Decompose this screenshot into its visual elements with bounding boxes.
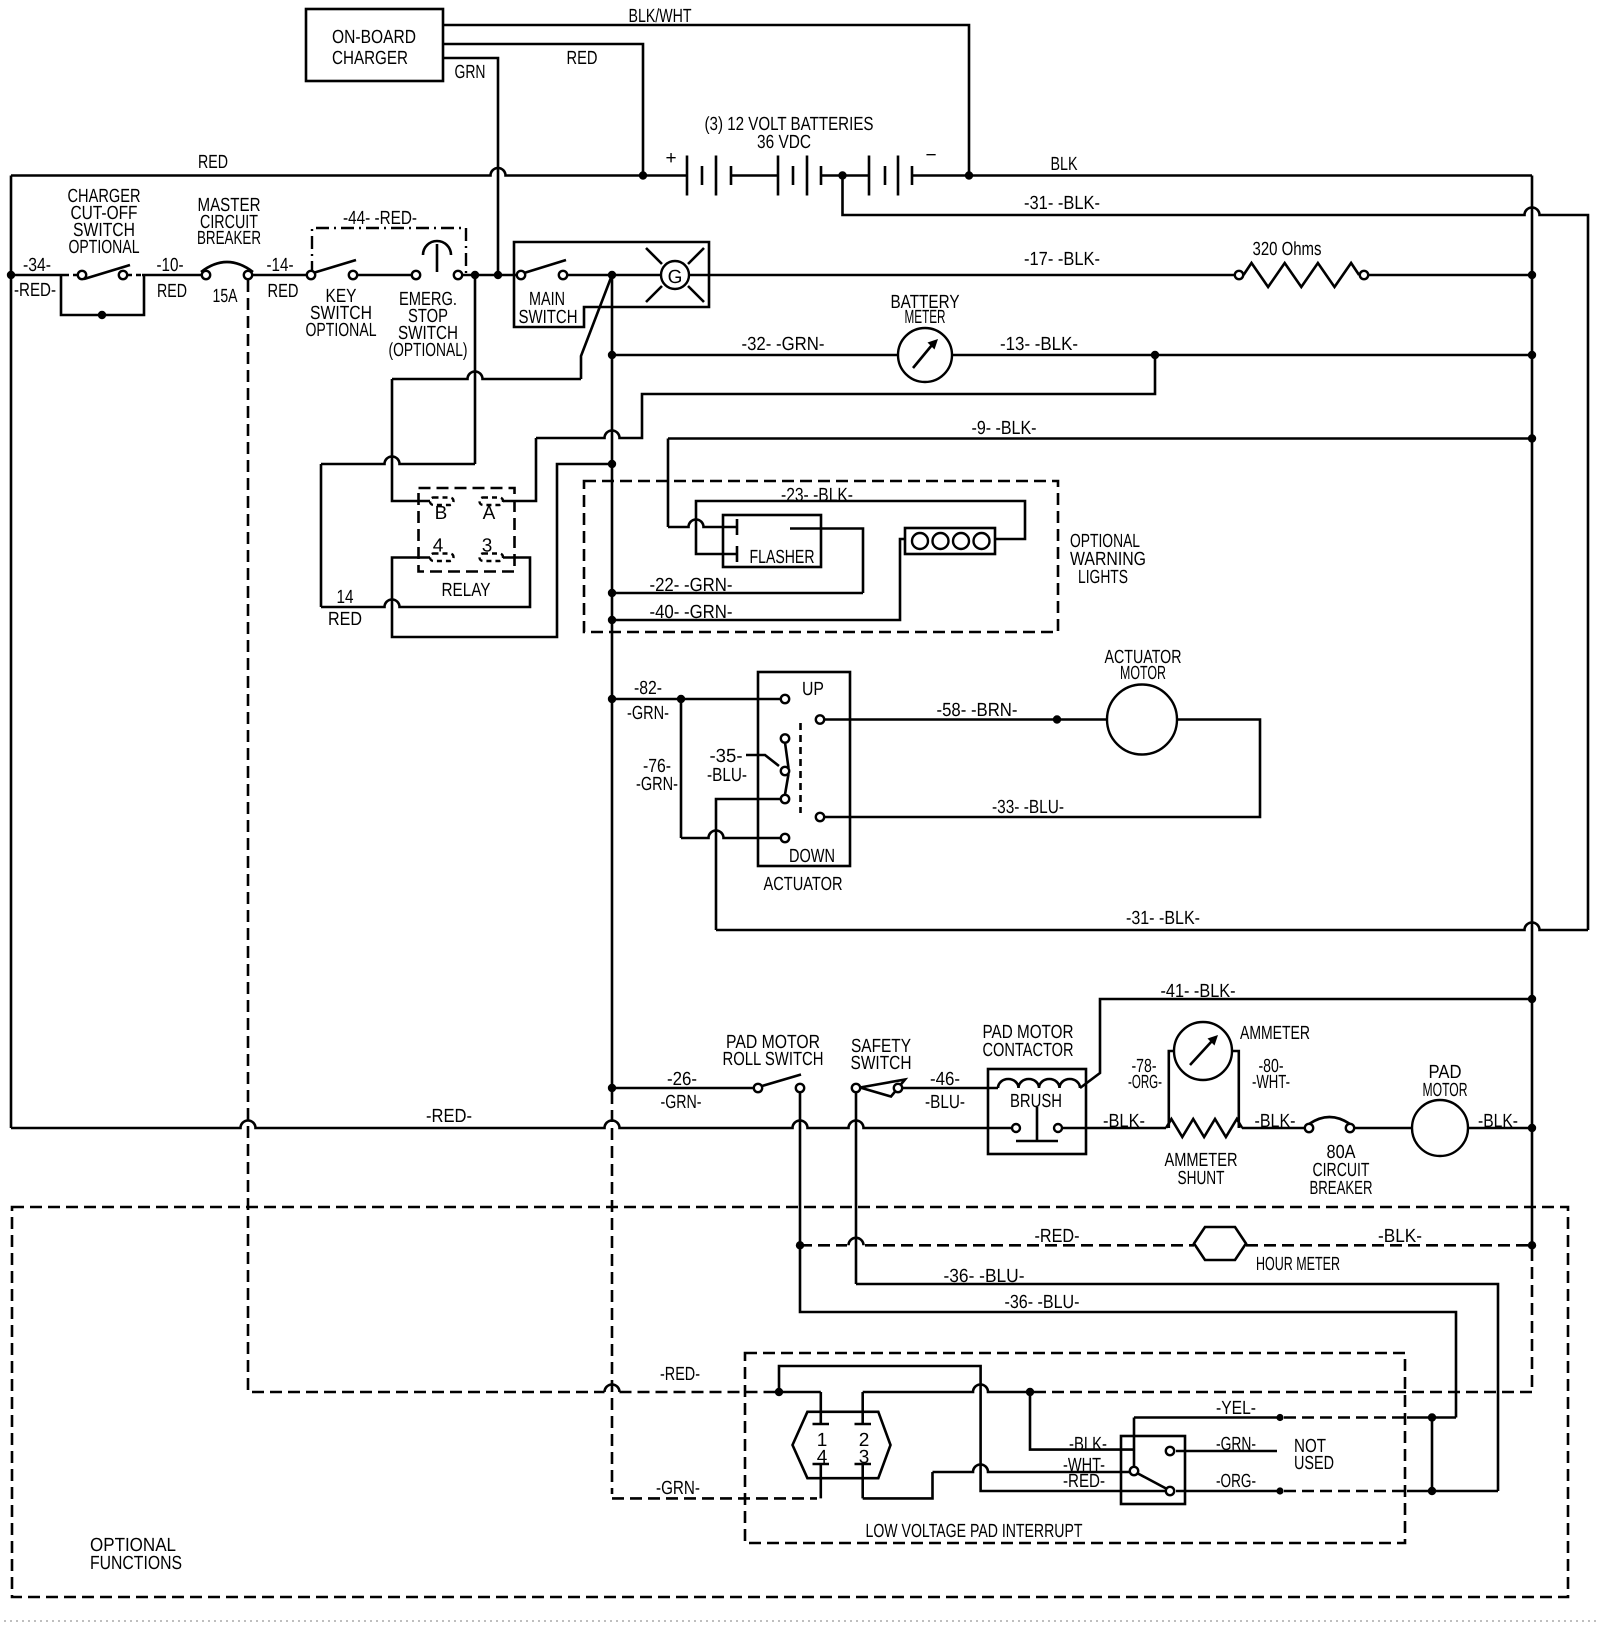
svg-text:BLK: BLK	[1051, 154, 1078, 175]
label -14- RED	[267, 255, 299, 302]
battery B1 plates	[687, 156, 716, 196]
junction dot 17 BLK right rail	[1528, 271, 1536, 279]
junction dot ORG jumper	[1428, 1487, 1436, 1495]
connector pin 3	[855, 1464, 872, 1498]
junction dot hour meter RED tap	[796, 1241, 804, 1249]
actuator 35 BLU pointer	[746, 755, 779, 766]
label charger cut-off switch optional	[68, 186, 141, 258]
svg-text:-BLU-: -BLU-	[925, 1092, 965, 1113]
wire 46 BLU safety switch to contactor coil	[898, 1087, 998, 1090]
flasher input contact bars	[736, 519, 739, 562]
ammeter needle	[1190, 1041, 1212, 1065]
wire YEL-ORG jumper link	[1431, 1418, 1434, 1492]
wire 31 BLK actuator return to right rail	[716, 799, 1588, 930]
svg-text:-31- -BLK-: -31- -BLK-	[1024, 193, 1100, 214]
svg-text:-ORG-: -ORG-	[1128, 1072, 1162, 1093]
wire cut-off switch bypass	[61, 275, 144, 315]
relay contact pad A	[480, 498, 504, 506]
G charge lamp rays	[646, 248, 704, 302]
key switch contacts	[307, 271, 315, 279]
warning lights bar	[905, 528, 995, 554]
wire right rail battery negative	[1531, 176, 1532, 1246]
svg-text:UP: UP	[802, 679, 824, 700]
label main switch	[519, 289, 578, 328]
label master circuit breaker	[197, 195, 261, 249]
junction dot YEL jumper	[1428, 1413, 1436, 1421]
wire 23 BLK flasher to warning lights	[696, 501, 1025, 554]
wire dashed YEL from interrupt switch	[1284, 1416, 1407, 1419]
svg-text:METER: METER	[905, 307, 946, 328]
wire bottom RED rail	[11, 1121, 1016, 1128]
svg-text:A: A	[483, 503, 496, 524]
svg-text:-BLK-: -BLK-	[1478, 1111, 1518, 1132]
wire dashed BLK hour meter to right rail	[1246, 1244, 1528, 1247]
wire 58 BRN actuator to motor	[820, 718, 1107, 721]
svg-text:-RED-: -RED-	[14, 280, 56, 301]
pad motor contactor box	[988, 1069, 1086, 1154]
svg-text:-17- -BLK-: -17- -BLK-	[1024, 249, 1100, 270]
svg-text:-14-: -14-	[267, 255, 294, 276]
80A circuit breaker arc	[1309, 1117, 1350, 1124]
actuator blades	[785, 743, 789, 795]
main switch contacts	[517, 271, 525, 279]
wire dashed BLK pad interrupt to right rail	[1034, 1249, 1532, 1392]
charger cut-off switch blade	[84, 265, 130, 279]
svg-text:CHARGER: CHARGER	[332, 48, 408, 69]
junction dot 58 BRN splice	[1053, 715, 1061, 723]
svg-text:-58- -BRN-: -58- -BRN-	[937, 700, 1018, 721]
svg-text:SWITCH: SWITCH	[519, 307, 578, 328]
junction dot 40 GRN	[608, 616, 616, 624]
master circuit breaker contacts	[202, 271, 210, 279]
wire relay pin 4 net to GRN vertical	[392, 464, 612, 637]
emergency stop switch mushroom head	[423, 241, 451, 272]
svg-text:-9- -BLK-: -9- -BLK-	[972, 418, 1037, 439]
svg-text:-13- -BLK-: -13- -BLK-	[1000, 334, 1078, 355]
svg-text:RELAY: RELAY	[442, 580, 491, 601]
svg-text:15A: 15A	[213, 286, 238, 307]
svg-text:(OPTIONAL): (OPTIONAL)	[389, 340, 468, 361]
wire shunt to 80A breaker	[1242, 1127, 1309, 1130]
pad motor roll switch contacts	[754, 1084, 762, 1092]
svg-text:36 VDC: 36 VDC	[757, 132, 811, 153]
svg-text:+: +	[665, 148, 676, 169]
wire dashed net 44 master breaker to optional functions (vertical at x=248)	[248, 280, 605, 1392]
label -10- RED	[157, 255, 188, 302]
svg-text:RED: RED	[567, 48, 598, 69]
label batteries	[705, 114, 874, 153]
junction dot left border switch line	[7, 271, 15, 279]
label -35- -BLU-	[707, 746, 747, 786]
wire 33 BLU motor return to actuator	[820, 720, 1260, 818]
label 14 RED	[328, 587, 362, 630]
svg-text:-RED-: -RED-	[660, 1364, 700, 1385]
battery B3 plates	[869, 156, 898, 196]
wire 82 GRN to actuator UP	[612, 698, 785, 701]
wire 76 GRN to actuator DOWN	[681, 699, 785, 838]
svg-text:-RED-: -RED-	[1035, 1226, 1080, 1247]
junction dot YEL splice	[1276, 1414, 1283, 1421]
wire ammeter risers	[1169, 1051, 1239, 1128]
label optional warning lights	[1070, 531, 1146, 588]
wire GRN not used from interrupt switch	[1176, 1450, 1277, 1453]
ammeter shunt zigzag	[1166, 1119, 1242, 1137]
label -46- -BLU-	[925, 1069, 965, 1113]
svg-text:BREAKER: BREAKER	[197, 228, 261, 249]
actuator contacts left column	[781, 695, 789, 703]
hour meter hexagon	[1194, 1227, 1246, 1260]
contactor coil	[998, 1079, 1080, 1088]
contactor contacts	[1012, 1124, 1020, 1132]
wire 22 GRN flasher output to GRN vertical	[612, 529, 863, 594]
on-board charger box	[306, 9, 443, 81]
junction dot main switch to G line	[608, 271, 616, 279]
interrupt switch blade	[1137, 1473, 1167, 1489]
label safety switch	[851, 1036, 912, 1074]
wire pad interrupt pin 1 RED net	[779, 1366, 1166, 1491]
wire dashed RED feed to pad interrupt (hop over x=612)	[605, 1385, 620, 1393]
svg-text:-BLK-: -BLK-	[1255, 1111, 1296, 1132]
80A circuit breaker contacts	[1305, 1124, 1313, 1132]
junction dot battery 31 tap	[838, 171, 846, 179]
safety switch contacts	[852, 1084, 860, 1092]
relay contact pad 4	[430, 554, 454, 562]
junction dot BLK/WHT at battery	[965, 171, 973, 179]
wire RED charger to battery plus	[443, 44, 643, 176]
wire ORG solid jog outside interrupt box	[1407, 1490, 1498, 1493]
G charge lamp circle	[661, 261, 689, 289]
junction dot 76 GRN branch	[677, 695, 685, 703]
page bottom dotted border	[4, 1620, 1596, 1622]
junction dot pad motor right rail	[1528, 1124, 1536, 1132]
svg-text:-82-: -82-	[634, 678, 662, 699]
junction dot ORG splice	[1276, 1487, 1283, 1494]
connector pin 4	[813, 1464, 830, 1498]
master circuit breaker 15A arc	[201, 262, 253, 272]
label -80- -WHT-	[1252, 1056, 1290, 1093]
junction dot pin4 wire at GRN vertical	[608, 460, 616, 468]
battery meter needle	[913, 345, 932, 368]
svg-text:4: 4	[433, 536, 444, 557]
svg-text:-33- -BLU-: -33- -BLU-	[992, 797, 1064, 818]
junction dot meter line to pin A riser	[1151, 351, 1159, 359]
svg-text:320 Ohms: 320 Ohms	[1253, 239, 1322, 260]
junction dot pad interrupt RED	[775, 1388, 783, 1396]
wire 41 BLK contactor coil to right rail	[1080, 999, 1532, 1088]
junction dot 9 BLK right rail	[1528, 434, 1536, 442]
svg-text:G: G	[668, 267, 683, 288]
svg-text:-10-: -10-	[157, 255, 184, 276]
svg-text:-32- -GRN-: -32- -GRN-	[742, 334, 825, 355]
actuator contacts right column	[816, 715, 824, 723]
svg-text:BLK/WHT: BLK/WHT	[629, 6, 692, 27]
svg-text:RED: RED	[328, 609, 362, 630]
svg-text:GRN: GRN	[455, 62, 486, 83]
svg-text:RED: RED	[198, 152, 228, 173]
wire safety switch drop to 36 BLU upper	[856, 1088, 1498, 1491]
svg-text:B: B	[435, 503, 448, 524]
junction dot 13 BLK right rail	[1528, 351, 1536, 359]
svg-text:-GRN-: -GRN-	[627, 703, 669, 724]
relay contact pad 3	[480, 554, 504, 562]
svg-text:-40- -GRN-: -40- -GRN-	[650, 602, 733, 623]
svg-text:-35-: -35-	[710, 746, 743, 767]
connector pin 1	[813, 1392, 830, 1424]
label pad motor	[1423, 1062, 1468, 1101]
wire RED rail contactor to shunt	[1058, 1127, 1166, 1130]
svg-text:-BLU-: -BLU-	[707, 765, 747, 786]
svg-text:-26-: -26-	[667, 1069, 697, 1090]
resistor 320 Ohms terminals	[1235, 271, 1243, 279]
svg-text:-22- -GRN-: -22- -GRN-	[650, 575, 733, 596]
wire emerg junction down to 14 RED loop feeding relay coil pins	[321, 275, 530, 607]
svg-text:-23- -BLK-: -23- -BLK-	[781, 485, 853, 506]
svg-text:FUNCTIONS: FUNCTIONS	[90, 1553, 182, 1574]
label on-board charger	[332, 27, 416, 69]
main switch blade	[524, 260, 566, 273]
svg-text:-WHT-: -WHT-	[1252, 1072, 1290, 1093]
wire relay pin B net from main switch junction	[392, 275, 612, 501]
svg-text:MOTOR: MOTOR	[1423, 1080, 1468, 1101]
svg-text:AMMETER: AMMETER	[1240, 1023, 1310, 1044]
junction dot emerg out	[471, 271, 479, 279]
svg-text:ROLL SWITCH: ROLL SWITCH	[723, 1049, 824, 1070]
label pad motor contactor	[983, 1022, 1074, 1061]
wire left border RED	[10, 176, 13, 1129]
wire relay pin A net to battery meter line	[503, 355, 1155, 501]
svg-text:SHUNT: SHUNT	[1178, 1168, 1225, 1189]
wire dashed leads of charger cut-off switch	[64, 274, 142, 276]
wire BLK branch to interrupt switch common	[1030, 1392, 1134, 1450]
svg-text:−: −	[925, 145, 936, 166]
svg-text:CONTACTOR: CONTACTOR	[983, 1040, 1074, 1061]
battery meter circle	[898, 328, 952, 382]
safety switch blade triangle	[860, 1080, 905, 1097]
junction dot RED at battery	[639, 171, 647, 179]
wire key switch to emergency stop	[353, 274, 416, 277]
svg-text:-36- -BLU-: -36- -BLU-	[1005, 1292, 1080, 1313]
svg-text:LIGHTS: LIGHTS	[1078, 567, 1128, 588]
actuator mechanical link dashed	[799, 723, 802, 813]
svg-text:-ORG-: -ORG-	[1216, 1471, 1256, 1492]
wire GRN charger to main switch line	[443, 58, 498, 275]
svg-text:-31- -BLK-: -31- -BLK-	[1126, 908, 1200, 929]
warning lights lamps	[912, 533, 928, 549]
svg-text:3: 3	[859, 1447, 870, 1468]
svg-text:-41- -BLK-: -41- -BLK-	[1161, 981, 1236, 1002]
svg-text:BRUSH: BRUSH	[1010, 1091, 1062, 1112]
label emergency stop switch	[389, 289, 468, 361]
junction dot 26 GRN tap	[608, 1084, 616, 1092]
svg-text:RED: RED	[268, 281, 299, 302]
actuator motor circle	[1107, 685, 1177, 755]
wire dashed ORG from interrupt switch	[1284, 1490, 1407, 1493]
svg-text:USED: USED	[1294, 1453, 1334, 1474]
wire YEL solid jog outside interrupt box	[1407, 1416, 1456, 1419]
wire 14 RED breaker to key switch	[248, 274, 311, 277]
label battery meter	[891, 292, 960, 328]
svg-text:4: 4	[817, 1447, 828, 1468]
wire 80A breaker to pad motor	[1350, 1127, 1412, 1130]
wire GRN long vertical	[611, 275, 614, 1092]
wire ORG inside interrupt box	[1176, 1490, 1280, 1493]
wire 40 GRN to warning lights	[612, 539, 905, 620]
svg-text:FLASHER: FLASHER	[750, 547, 815, 568]
label -26- -GRN-	[661, 1069, 702, 1113]
low voltage pad interrupt dashed box	[745, 1353, 1405, 1543]
wire pad motor to right rail	[1468, 1127, 1532, 1130]
wire dashed GRN from main-switch net down to pad interrupt pin 4	[612, 1092, 817, 1498]
svg-text:-BLK-: -BLK-	[1378, 1226, 1422, 1247]
svg-text:3: 3	[482, 536, 493, 557]
label not used	[1294, 1436, 1334, 1474]
relay dashed box	[419, 488, 515, 572]
pad motor roll switch blade	[762, 1075, 801, 1087]
wire roll switch drop to 36 BLU lower	[800, 1088, 1456, 1418]
label -34- -RED-	[14, 255, 56, 301]
main switch box with notch	[514, 242, 709, 327]
interrupt switch box	[1121, 1436, 1185, 1504]
wire 34 RED switch line from left border	[11, 274, 64, 277]
junction dot 82 GRN	[608, 695, 616, 703]
svg-text:14: 14	[337, 587, 354, 608]
label actuator motor	[1105, 647, 1182, 684]
svg-text:OPTIONAL: OPTIONAL	[69, 237, 140, 258]
wire main switch to G lamp to 17 BLK resistor and right rail	[563, 274, 1532, 277]
svg-text:ON-BOARD: ON-BOARD	[332, 27, 416, 48]
wire 32 GRN and 13 BLK battery meter line	[612, 354, 1532, 357]
junction dot GRN vertical at meter line	[608, 351, 616, 359]
svg-text:-34-: -34-	[23, 255, 51, 276]
svg-text:HOUR METER: HOUR METER	[1256, 1254, 1340, 1275]
svg-text:-RED-: -RED-	[426, 1106, 472, 1127]
junction dot cutoff bypass	[98, 311, 106, 319]
svg-text:-GRN-: -GRN-	[661, 1092, 702, 1113]
wire 31 BLK battery tap to right	[843, 176, 1589, 931]
flasher box	[723, 515, 821, 567]
relay contact pad B	[430, 498, 454, 506]
svg-text:BREAKER: BREAKER	[1310, 1178, 1373, 1199]
wire 26 GRN to pad motor roll switch	[612, 1087, 758, 1090]
label -78- -ORG-	[1128, 1056, 1162, 1093]
svg-text:-RED-: -RED-	[1063, 1471, 1105, 1492]
svg-text:MOTOR: MOTOR	[1120, 663, 1166, 684]
connector pin 2	[855, 1392, 872, 1424]
dash-dot box 44 RED around key and emergency stop switches	[312, 228, 466, 274]
svg-text:-YEL-: -YEL-	[1216, 1398, 1256, 1419]
junction dot hour meter BLK right rail	[1528, 1241, 1536, 1249]
label ammeter shunt	[1165, 1150, 1238, 1189]
charger cut-off switch contacts	[78, 271, 86, 279]
wire pad interrupt pin 2 BLK net	[863, 1385, 1030, 1393]
wire emergency stop to main switch	[458, 274, 521, 277]
key switch blade	[313, 260, 356, 273]
svg-text:-BLK-: -BLK-	[1069, 1434, 1107, 1455]
wire top RED rail from left border to battery	[11, 168, 687, 175]
svg-text:-GRN-: -GRN-	[636, 774, 678, 795]
wire WHT pin 3 to interrupt switch pivot	[863, 1465, 1130, 1499]
contactor moving contact T bar	[1016, 1107, 1058, 1141]
optional functions dashed box	[12, 1207, 1568, 1597]
pad motor circle	[1412, 1100, 1468, 1156]
emergency stop switch contacts	[412, 271, 420, 279]
svg-text:-GRN-: -GRN-	[656, 1478, 700, 1499]
pad interrupt connector hexagon	[793, 1412, 891, 1478]
svg-text:-46-: -46-	[930, 1069, 960, 1090]
label pad motor roll switch	[723, 1032, 824, 1070]
wire 9 BLK flasher feed to right rail	[668, 439, 1532, 528]
svg-text:RED: RED	[157, 281, 187, 302]
svg-text:-44- -RED-: -44- -RED-	[343, 208, 417, 229]
svg-text:ACTUATOR: ACTUATOR	[764, 874, 843, 895]
resistor 320 Ohms zigzag	[1244, 263, 1360, 287]
svg-text:DOWN: DOWN	[789, 846, 835, 867]
label optional functions	[90, 1535, 182, 1574]
wire dashed RED hour meter line	[800, 1244, 1194, 1247]
ammeter circle	[1174, 1022, 1232, 1080]
actuator box	[758, 672, 850, 866]
junction dot 22 GRN	[608, 589, 616, 597]
svg-text:-36- -BLU-: -36- -BLU-	[944, 1266, 1025, 1287]
label -82- -GRN-	[627, 678, 669, 724]
label key switch optional	[306, 286, 377, 341]
svg-text:-GRN-: -GRN-	[1216, 1434, 1256, 1455]
junction dot 41 BLK right rail	[1528, 995, 1536, 1003]
label 80A circuit breaker	[1310, 1142, 1373, 1199]
interrupt switch contacts	[1130, 1467, 1138, 1475]
wire BLK/WHT charger to battery minus	[443, 25, 969, 176]
optional warning lights dashed box	[584, 481, 1058, 632]
wire YEL inside interrupt box	[1134, 1418, 1280, 1468]
svg-text:OPTIONAL: OPTIONAL	[306, 320, 377, 341]
junction dot GRN at switch line	[494, 271, 502, 279]
wire battery inter-cell links	[731, 174, 1531, 177]
svg-text:-BLK-: -BLK-	[1103, 1111, 1145, 1132]
svg-text:SWITCH: SWITCH	[851, 1053, 912, 1074]
junction dot pad interrupt BLK	[1026, 1388, 1034, 1396]
svg-text:LOW VOLTAGE PAD INTERRUPT: LOW VOLTAGE PAD INTERRUPT	[866, 1521, 1083, 1542]
wire 10 RED cutoff to master breaker	[142, 274, 206, 277]
battery B2 plates	[778, 156, 807, 196]
label -76- -GRN-	[636, 756, 678, 795]
